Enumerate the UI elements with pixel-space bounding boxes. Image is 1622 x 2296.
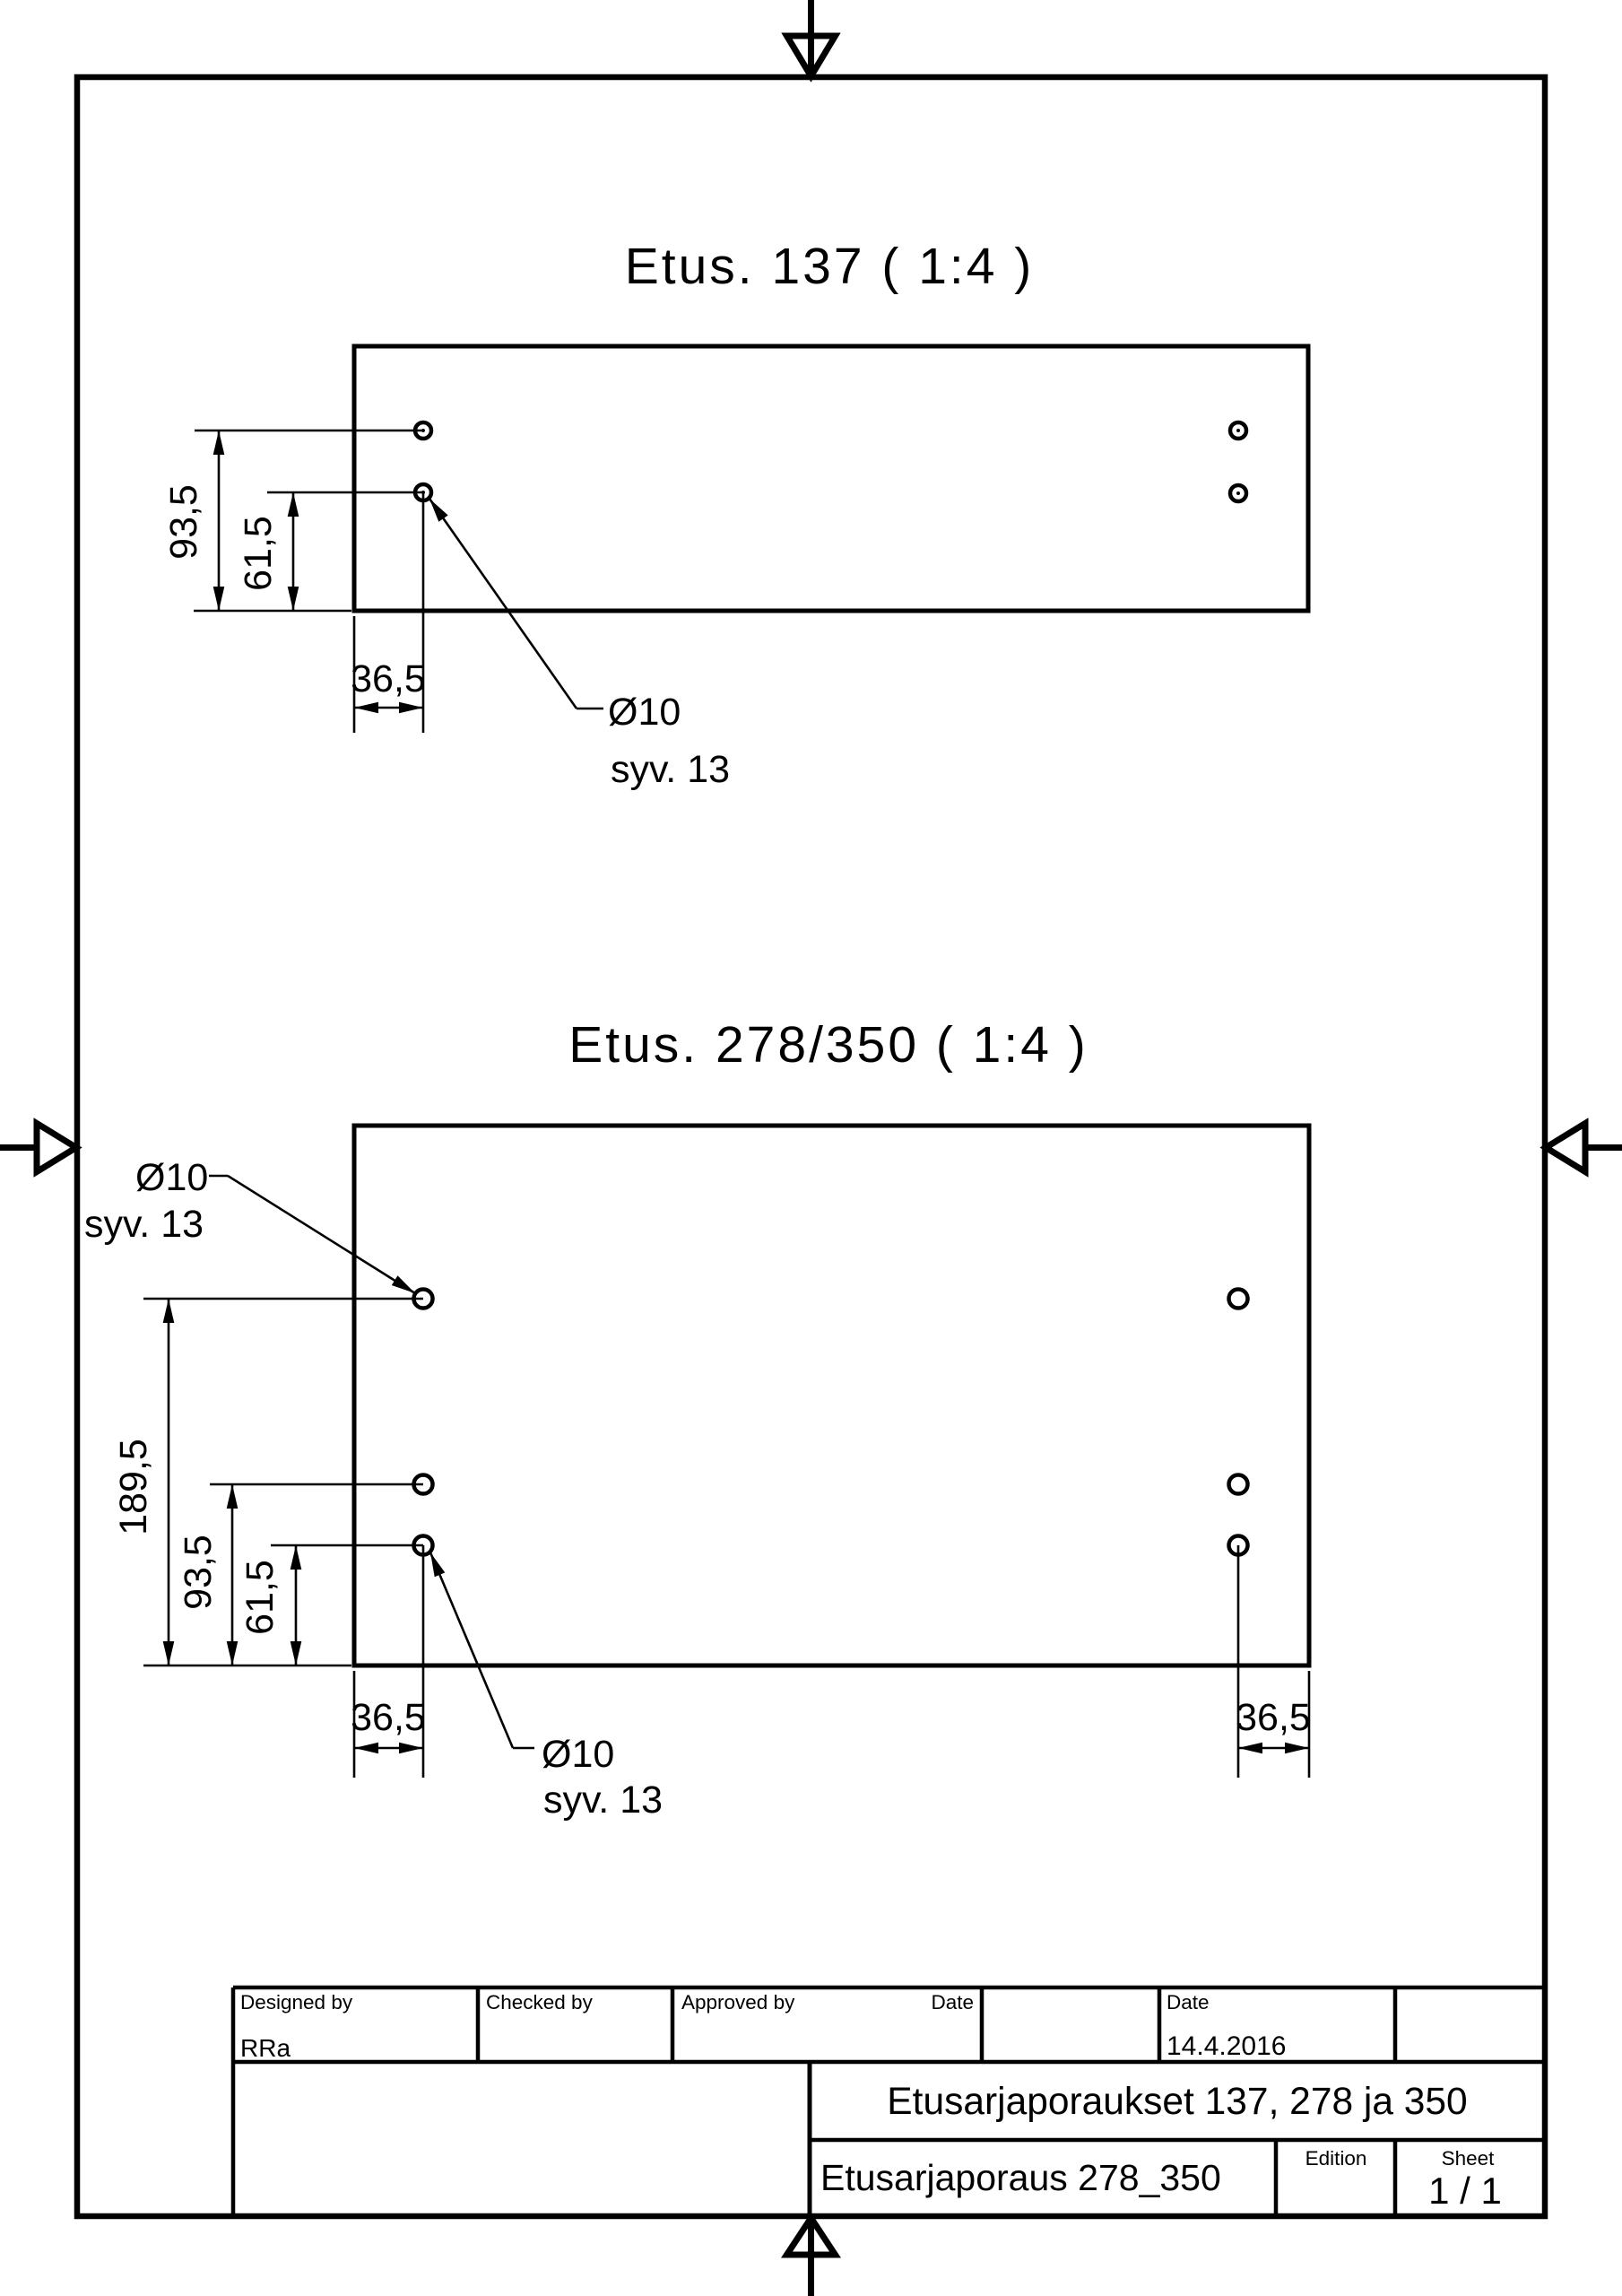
- svg-text:36,5: 36,5: [351, 657, 426, 700]
- hole E view 278/350: [1229, 1475, 1248, 1494]
- svg-text:Checked by: Checked by: [486, 1991, 594, 2013]
- hole 2 view 137: [415, 484, 431, 500]
- title block grid: [233, 1987, 1542, 2215]
- leader hole C callout: [430, 1552, 534, 1748]
- svg-text:61,5: 61,5: [239, 1560, 282, 1635]
- hole 1 view 137: [415, 422, 431, 439]
- svg-text:36,5: 36,5: [1236, 1696, 1311, 1739]
- svg-text:36,5: 36,5: [351, 1696, 426, 1739]
- dimension 93,5 view 278/350: [177, 1484, 238, 1665]
- leader hole callout view 137: [429, 499, 603, 709]
- part outline 278/350: [354, 1126, 1309, 1665]
- dimension 189,5 view 278/350: [112, 1299, 174, 1665]
- extension line hole1: [195, 430, 423, 432]
- extension line bottom edge 137: [194, 610, 351, 613]
- part outline 137: [354, 346, 1308, 611]
- svg-text:Designed by: Designed by: [240, 1991, 353, 2013]
- top centering mark: [787, 0, 836, 76]
- svg-text:Etus. 278/350 ( 1:4 ): Etus. 278/350 ( 1:4 ): [568, 1016, 1088, 1074]
- svg-text:Ø10: Ø10: [608, 691, 681, 734]
- svg-text:Etusarjaporaukset 137, 278 ja: Etusarjaporaukset 137, 278 ja 350: [887, 2081, 1467, 2123]
- hole D view 278/350: [1229, 1290, 1248, 1309]
- extension line bottom edge 278/350: [143, 1665, 351, 1667]
- svg-text:RRa: RRa: [240, 2034, 291, 2062]
- hole 4 view 137: [1230, 485, 1246, 501]
- svg-text:1 / 1: 1 / 1: [1428, 2170, 1502, 2212]
- svg-text:14.4.2016: 14.4.2016: [1167, 2031, 1286, 2061]
- svg-text:Edition: Edition: [1305, 2147, 1367, 2170]
- dimension 61,5 view 278/350: [239, 1545, 301, 1665]
- extension line hole C: [271, 1544, 423, 1547]
- svg-text:93,5: 93,5: [162, 484, 205, 560]
- svg-text:Date: Date: [931, 1991, 974, 2013]
- dimension 36,5 view 137: [351, 492, 426, 733]
- svg-text:Date: Date: [1167, 1991, 1210, 2013]
- svg-text:Approved by: Approved by: [681, 1991, 795, 2013]
- svg-text:Sheet: Sheet: [1442, 2147, 1496, 2170]
- dimension 36,5 left view 278/350: [351, 1545, 426, 1778]
- bottom centering mark: [787, 2218, 836, 2296]
- svg-text:61,5: 61,5: [237, 516, 280, 591]
- svg-text:syv. 13: syv. 13: [611, 748, 730, 791]
- svg-text:93,5: 93,5: [177, 1535, 220, 1610]
- leader hole A callout: [209, 1176, 415, 1293]
- hole B view 278/350: [414, 1475, 433, 1494]
- extension line hole B: [210, 1483, 423, 1486]
- hole F view 278/350: [1229, 1536, 1248, 1555]
- svg-text:syv. 13: syv. 13: [543, 1779, 663, 1822]
- extension line hole A: [143, 1298, 423, 1300]
- svg-text:syv. 13: syv. 13: [84, 1203, 204, 1246]
- svg-text:Etus. 137 ( 1:4 ): Etus. 137 ( 1:4 ): [625, 238, 1035, 295]
- svg-text:189,5: 189,5: [112, 1439, 155, 1535]
- dimension 36,5 right view 278/350: [1236, 1545, 1311, 1778]
- left centering mark: [0, 1124, 76, 1172]
- right centering mark: [1546, 1124, 1622, 1172]
- svg-text:Ø10: Ø10: [542, 1733, 614, 1776]
- hole C view 278/350: [414, 1536, 433, 1555]
- dimension 61,5 view 137: [237, 492, 299, 611]
- svg-text:Etusarjaporaus 278_350: Etusarjaporaus 278_350: [820, 2157, 1221, 2198]
- hole 3 view 137: [1230, 422, 1246, 439]
- svg-text:Ø10: Ø10: [135, 1156, 208, 1199]
- dimension 93,5 view 137: [162, 430, 224, 611]
- hole A view 278/350: [414, 1290, 433, 1309]
- extension line hole2: [267, 491, 423, 494]
